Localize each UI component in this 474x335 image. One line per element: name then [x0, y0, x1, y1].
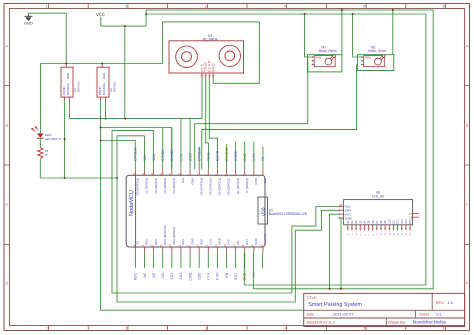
wire D0 net	[100, 140, 136, 170]
svg-text:GND: GND	[190, 177, 194, 185]
wire outer loop rail	[146, 10, 433, 289]
svg-text:REV:: REV:	[436, 301, 445, 305]
svg-text:SD3 (GPIO10): SD3 (GPIO10)	[163, 225, 167, 245]
svg-text:1.0: 1.0	[448, 301, 453, 305]
svg-text:TITLE:: TITLE:	[307, 296, 317, 300]
svg-text:CMD: CMD	[190, 237, 194, 245]
svg-text:Date:: Date:	[307, 313, 316, 317]
LED LED1	[31, 126, 61, 147]
wire D2 net SCL	[112, 131, 339, 293]
svg-text:EN: EN	[225, 272, 229, 277]
svg-text:11: 11	[168, 173, 172, 176]
svg-text:Motor_Servo: Motor_Servo	[368, 49, 386, 53]
svg-text:1/1: 1/1	[436, 312, 442, 317]
svg-text:Motor_Servo: Motor_Servo	[319, 49, 337, 53]
wire U5 source to pin rail	[68, 100, 70, 119]
svg-text:14: 14	[141, 173, 145, 177]
svg-text:D12: D12	[397, 219, 400, 224]
svg-text:LCD_I2c: LCD_I2c	[372, 194, 385, 198]
svg-text:Manobhav Mehta: Manobhav Mehta	[413, 320, 447, 325]
svg-text:3.3V: 3.3V	[216, 272, 220, 280]
wire GND pin28 to rail	[243, 253, 245, 285]
svg-text:D0 (GPIO16): D0 (GPIO16)	[136, 178, 140, 196]
svg-text:RO-623: RO-623	[76, 81, 80, 92]
transistor U5 RO-623	[61, 64, 80, 100]
svg-text:3V3: 3V3	[227, 239, 231, 245]
svg-text:LED-0603_R: LED-0603_R	[45, 137, 61, 141]
svg-text:3: 3	[205, 4, 207, 8]
svg-text:D10: D10	[388, 219, 391, 224]
svg-text:PWM: PWM	[365, 57, 371, 60]
svg-text:12: 12	[159, 173, 163, 177]
svg-text:D5 (GPIO14): D5 (GPIO14)	[199, 178, 203, 196]
svg-text:SD2 (GPIO9): SD2 (GPIO9)	[172, 227, 176, 245]
wire sensor TRIG pin	[206, 78, 209, 169]
svg-text:NodeMCU: NodeMCU	[129, 190, 135, 216]
svg-text:1: 1	[46, 327, 48, 331]
servo connector M1	[312, 46, 337, 67]
svg-text:SD1: SD1	[179, 272, 183, 279]
wire LCD GND drop	[339, 218, 343, 290]
wire U2 drain drop	[101, 100, 304, 310]
svg-text:5: 5	[363, 327, 365, 331]
net labels above U1	[134, 147, 266, 161]
svg-text:3: 3	[205, 327, 207, 331]
svg-text:D6 (GPIO12): D6 (GPIO12)	[208, 178, 212, 196]
svg-text:Vin (5V): Vin (5V)	[263, 234, 267, 245]
svg-text:RST: RST	[245, 239, 249, 245]
svg-text:SD2: SD2	[170, 272, 174, 279]
svg-text:SD0: SD0	[197, 272, 201, 279]
junction reg U2 GND	[101, 63, 103, 65]
svg-text:D2 (GPIO4): D2 (GPIO4)	[154, 178, 158, 194]
svg-text:GND: GND	[218, 237, 222, 245]
label U1 NodeMCU ESP8266-12E	[269, 208, 308, 216]
svg-text:Smart Parking System: Smart Parking System	[308, 302, 362, 308]
svg-text:6: 6	[443, 327, 445, 331]
svg-text:6: 6	[443, 4, 445, 8]
wire VCC top rail	[146, 13, 426, 15]
svg-text:ECHO: ECHO	[216, 150, 220, 161]
svg-text:GND: GND	[212, 63, 216, 72]
svg-text:2: 2	[125, 4, 127, 8]
wire VCC feed	[101, 10, 147, 26]
svg-text:RSV: RSV	[145, 239, 149, 245]
svg-text:D4 (GPIO2): D4 (GPIO2)	[172, 178, 176, 194]
svg-text:Drawn By:: Drawn By:	[388, 320, 406, 324]
svg-text:TX (GPIO1): TX (GPIO1)	[245, 178, 249, 194]
svg-text:NC: NC	[152, 272, 156, 278]
title block	[304, 293, 465, 326]
net VCC label	[96, 12, 105, 26]
wire U5 drain to R1 net	[64, 100, 66, 179]
wire LCD VCC drop	[329, 214, 339, 290]
svg-text:10: 10	[177, 173, 181, 177]
svg-text:GND: GND	[66, 73, 70, 79]
svg-text:SD1: SD1	[181, 239, 185, 245]
svg-text:CLK: CLK	[208, 239, 212, 245]
svg-text:D15: D15	[409, 219, 412, 224]
svg-text:GND: GND	[102, 73, 106, 79]
wire VCC right drop to GND rail	[244, 14, 426, 285]
svg-text:D13: D13	[401, 219, 404, 224]
svg-text:GND: GND	[345, 216, 353, 220]
svg-text:1: 1	[46, 4, 48, 8]
svg-text:ADC: ADC	[134, 272, 138, 280]
net labels below U1	[134, 272, 256, 281]
svg-text:EN: EN	[236, 241, 240, 245]
svg-text:D8 (GPIO15): D8 (GPIO15)	[227, 178, 231, 196]
wire Vin pin30	[261, 253, 263, 268]
wire M1 signal to D8	[195, 61, 308, 170]
svg-text:3V3: 3V3	[263, 177, 267, 183]
LCD display U6 LCD_I2c	[339, 191, 419, 236]
svg-text:D1 (GPIO5): D1 (GPIO5)	[145, 178, 149, 194]
svg-text:CMD: CMD	[188, 272, 192, 281]
svg-text:CLK: CLK	[207, 272, 211, 280]
microcontroller U1 NodeMCU body	[126, 175, 265, 247]
wire M1 enclosure	[308, 9, 343, 72]
U1 bottom pins 16-30	[132, 225, 267, 252]
wires U1 bottom pin stubs	[135, 253, 244, 268]
wire sensor VCC pin	[201, 78, 203, 119]
svg-text:15: 15	[132, 173, 136, 177]
svg-text:D11: D11	[393, 219, 396, 224]
svg-text:SOURCE: SOURCE	[66, 83, 70, 95]
svg-text:D14: D14	[405, 219, 408, 224]
svg-text:SOURCE: SOURCE	[102, 83, 106, 95]
svg-text:NC: NC	[161, 272, 165, 278]
junction reg U5 GND	[65, 63, 67, 65]
wire GND loop around sensor	[162, 22, 259, 83]
svg-text:TRIG: TRIG	[207, 152, 211, 161]
wire VCC drop to pin rail	[124, 26, 126, 119]
svg-text:SD0: SD0	[199, 239, 203, 245]
svg-text:13: 13	[150, 173, 154, 177]
wire M2 VCC feed	[352, 13, 362, 57]
svg-text:GND: GND	[254, 177, 258, 185]
wire sensor ECHO pin	[209, 78, 217, 169]
svg-text:4: 4	[284, 4, 286, 8]
ultrasonic sensor U4 HC-SR04	[169, 34, 244, 78]
wire pin rail GND	[69, 118, 202, 120]
svg-text:PWM: PWM	[315, 57, 321, 60]
svg-text:D3 (GPIO0): D3 (GPIO0)	[163, 178, 167, 194]
wire U2 source to pin rail	[105, 100, 107, 120]
svg-text:VCC: VCC	[96, 12, 105, 17]
svg-text:3V3: 3V3	[181, 177, 185, 183]
ground GND top-left	[24, 13, 33, 25]
svg-text:EasyEDA V3.11.3: EasyEDA V3.11.3	[307, 320, 335, 324]
svg-text:5: 5	[363, 4, 365, 8]
svg-text:Sheet:: Sheet:	[419, 313, 429, 317]
wire GND run to regulators	[28, 13, 162, 133]
transistor U2 RO-623	[97, 64, 116, 100]
wires U1 top pin stubs	[145, 119, 263, 170]
junction VCC feed	[124, 25, 126, 27]
svg-text:GND: GND	[254, 237, 258, 245]
svg-text:2021-02-27: 2021-02-27	[333, 312, 354, 317]
svg-text:NC: NC	[143, 272, 147, 278]
wire LCD SDA net	[117, 178, 339, 302]
U1 top pins 15-1	[132, 169, 267, 195]
svg-text:5v: 5v	[252, 272, 256, 276]
svg-text:GND: GND	[243, 272, 247, 280]
svg-text:2: 2	[125, 327, 127, 331]
svg-text:NodeMCU ESP8266-12E: NodeMCU ESP8266-12E	[269, 212, 308, 216]
USB port U1	[258, 197, 268, 224]
svg-text:RST: RST	[234, 272, 238, 279]
wire D1 net	[116, 136, 144, 179]
svg-text:USB: USB	[260, 207, 265, 216]
wire M2 enclosure	[357, 9, 393, 71]
wire M2 signal to RX	[202, 64, 357, 169]
svg-text:RO-623: RO-623	[112, 81, 116, 92]
wire R1 to bottom loop	[40, 158, 117, 178]
wire 5v pin29 to outer rail	[252, 253, 254, 289]
resistor R1 1k	[38, 147, 49, 158]
svg-text:D7 (GPIO13): D7 (GPIO13)	[218, 178, 222, 196]
servo connector M2	[361, 46, 386, 67]
svg-text:RX (GPIO3): RX (GPIO3)	[236, 178, 240, 194]
wire M1 VCC feed	[304, 13, 312, 57]
svg-text:GND: GND	[24, 21, 33, 26]
svg-text:RSV: RSV	[154, 239, 158, 245]
svg-text:A0: A0	[136, 241, 140, 245]
svg-text:4: 4	[284, 327, 286, 331]
wire D4 net	[100, 127, 172, 170]
